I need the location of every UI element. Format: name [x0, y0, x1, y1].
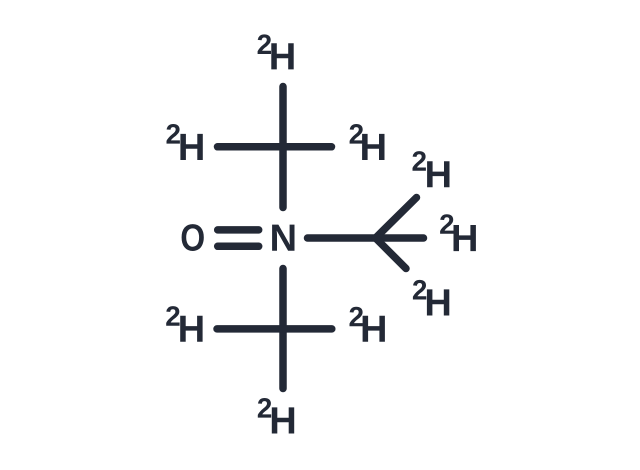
wire N to top carbon (vertical, through top C vertex)	[279, 87, 287, 208]
label 2H right methyl top - superscript 2	[413, 151, 426, 171]
label 2H bottom methyl bottom - H	[272, 407, 294, 433]
label 2H bottom methyl left - superscript 2	[166, 306, 179, 326]
label 2H right methyl top - H	[427, 161, 449, 187]
wire N to bottom carbon (vertical, through bottom C vertex)	[279, 269, 287, 389]
label 2H right methyl bottom - H	[427, 289, 449, 315]
label 2H bottom methyl right - superscript 2	[350, 307, 363, 327]
label 2H top methyl right - superscript 2	[350, 124, 363, 144]
wire N to right carbon	[308, 234, 376, 242]
label 2H top methyl left - H	[180, 134, 202, 160]
label 2H bottom methyl left - H	[180, 316, 202, 342]
wire O=N double bond upper line	[218, 226, 259, 234]
label 2H right methyl bottom - superscript 2	[413, 280, 426, 300]
label 2H right methyl right - superscript 2	[440, 214, 453, 234]
wire O=N double bond lower line	[218, 243, 259, 251]
label 2H bottom methyl right - H	[363, 316, 385, 342]
wire right carbon down-right diagonal bond	[376, 238, 407, 269]
wire right carbon right horizontal bond	[376, 234, 424, 242]
atom N	[272, 225, 294, 251]
label 2H top methyl right - H	[362, 134, 384, 160]
label 2H bottom methyl bottom - superscript 2	[258, 398, 271, 418]
wire right carbon up-right diagonal bond	[376, 198, 417, 239]
label 2H top methyl top - superscript 2	[258, 34, 271, 54]
wire bottom carbon horizontal bond (left 2H to right 2H)	[217, 325, 332, 333]
label 2H top methyl top - H	[271, 43, 293, 69]
wire top carbon horizontal bond (left 2H to right 2H)	[218, 143, 332, 151]
label 2H right methyl right - H	[454, 225, 476, 251]
atom O	[182, 224, 204, 251]
label 2H top methyl left - superscript 2	[167, 124, 180, 144]
